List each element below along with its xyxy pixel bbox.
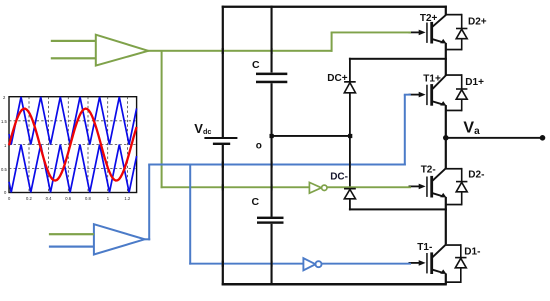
wire (D1+ top connector): [446, 74, 462, 76]
diode D2+: [456, 14, 467, 51]
svg-text:0.4: 0.4: [46, 196, 52, 201]
wire (DC- branch vertical below diode to lower rail): [349, 199, 351, 211]
wire (bottom rail): [222, 283, 447, 286]
diode D1-: [455, 244, 466, 283]
wire (green gate net: U1 output horizontal): [147, 50, 333, 52]
svg-text:T1+: T1+: [423, 73, 441, 84]
op-amp U2 (lower PWM comparator, blue): [94, 224, 145, 254]
label Vdc: [194, 121, 211, 136]
diode D2-: [456, 168, 467, 206]
svg-text:D1-: D1-: [464, 247, 480, 258]
svg-text:D2-: D2-: [468, 170, 484, 181]
wire (U1 lower input, green): [51, 57, 96, 59]
node o junction dots: [270, 134, 353, 138]
wire (D1+ bottom connector): [446, 110, 462, 112]
transistor Q3 T2- (IGBT): [409, 168, 447, 198]
capacitor C1 (upper): [256, 73, 287, 84]
transistor Q2 T1+ (IGBT): [409, 75, 447, 106]
svg-text:C: C: [252, 196, 260, 208]
wire (blue riser vertical): [148, 165, 150, 241]
op-amp U1 (upper PWM comparator, green): [96, 35, 148, 66]
wire (U2 lower input, blue): [49, 246, 94, 248]
wire (T2- emitter bus to lower midpoint): [445, 197, 447, 244]
wire (T2+ collector/emitter bus to midpoint): [445, 43, 447, 76]
capacitor C2 (lower): [257, 217, 284, 224]
wire (left bus over blue top-horizontal crossing): [222, 162, 224, 168]
wire (DC+ branch vertical below diode to node o): [349, 93, 351, 137]
wire (D2+ bottom connector): [446, 49, 462, 51]
transistor Q1 T2+ (IGBT): [409, 15, 447, 44]
svg-text:D2+: D2+: [468, 16, 487, 27]
wire (blue from NOT2 to T1- gate): [322, 263, 412, 265]
wire (cap bus over green output crossing): [271, 48, 273, 54]
wire (D1- top connector): [446, 244, 461, 246]
battery Vdc: [204, 137, 237, 145]
svg-text:1.2: 1.2: [124, 196, 130, 201]
wire (blue branch vertical to NOT2): [189, 165, 191, 265]
wire (green run to T2+ gate): [331, 32, 411, 34]
wire (D1- bottom connector): [446, 281, 461, 283]
wire (cap bus over blue top-horizontal crossing): [271, 162, 273, 168]
wire (green branch vertical to inverter): [161, 51, 163, 188]
wire (left bus over green output crossing): [222, 48, 224, 54]
wire (cap bus over blue bottom-horizontal crossing): [271, 261, 273, 267]
diode DC+: [344, 81, 356, 93]
wire (green from NOT1 to T2- gate): [327, 186, 411, 188]
wire (blue top horizontal): [148, 164, 406, 166]
svg-text:1.5: 1.5: [1, 119, 7, 124]
wire (blue vertical up to T1+ gate): [404, 95, 406, 166]
svg-text:0.5: 0.5: [1, 167, 7, 172]
wire (D2+ top connector): [446, 14, 462, 16]
chart (PWM carriers and reference plot): [1, 95, 137, 201]
svg-text:T2+: T2+: [420, 13, 438, 24]
wire (blue horizontal to NOT gate): [189, 263, 303, 265]
wire (lower midpoint rail T2-/T1-): [349, 208, 447, 210]
svg-text:0.2: 0.2: [26, 196, 32, 201]
svg-text:0.6: 0.6: [65, 196, 71, 201]
diode DC-: [344, 188, 356, 199]
svg-text:DC+: DC+: [327, 73, 347, 84]
wire (capacitor bus vertical, middle segment): [271, 83, 273, 217]
wire (T1+ emitter bus to Va node): [445, 105, 447, 168]
wire (top rail): [222, 6, 447, 8]
wire (DC bus left vertical, upper): [222, 6, 224, 137]
wire (DC bus left vertical, lower): [222, 145, 224, 286]
wire (upper midpoint rail T2+/T1+): [349, 58, 447, 60]
inverter NOT2 (blue): [303, 258, 321, 270]
wire (capacitor bus vertical, top segment): [271, 6, 273, 73]
node Va junction dot: [443, 135, 449, 141]
svg-text:D1+: D1+: [465, 77, 484, 88]
svg-text:o: o: [256, 141, 262, 152]
svg-text:0.8: 0.8: [85, 196, 91, 201]
wire (DC- vertical over blue top-horizontal crossing): [349, 162, 351, 168]
wire (blue net: U2 output to riser): [145, 238, 151, 240]
svg-text:C: C: [252, 59, 260, 71]
svg-text:DC-: DC-: [330, 171, 348, 182]
diode DC- cathode bar over green line: [344, 188, 356, 190]
svg-text:T2-: T2-: [421, 165, 436, 176]
wire (Va output line): [446, 137, 543, 139]
wire (D2- bottom connector): [446, 204, 462, 206]
wire (cap bus over green inverter-line crossing): [271, 184, 273, 190]
wire (DC- branch vertical from node o to diode): [349, 136, 351, 188]
wire (green step-up vertical): [331, 32, 333, 51]
svg-text:T1-: T1-: [417, 242, 432, 253]
transistor Q4 T1- (IGBT): [409, 244, 447, 274]
inverter NOT1 (green): [309, 182, 327, 193]
wire (blue run to T1+ gate): [404, 94, 411, 96]
node (Va line end dot): [540, 135, 546, 141]
wire (U1 upper input, green): [51, 40, 96, 42]
diode D1+: [456, 74, 467, 111]
wire (T1- emitter bus to bottom rail): [445, 273, 447, 284]
wire (right bus: top rail to T2+ collector): [445, 6, 447, 16]
wire (left bus over green inverter-line crossing): [222, 184, 224, 190]
wire (D2- top connector): [446, 168, 462, 170]
wire (neutral o horizontal): [271, 135, 351, 137]
wire (left bus over blue bottom-horizontal crossing): [222, 261, 224, 267]
wire (U2 upper input, green): [49, 233, 94, 235]
wire (DC+ branch vertical above diode): [349, 58, 351, 82]
wire (capacitor bus vertical, bottom segment): [271, 224, 273, 286]
wire (green horizontal to NOT gate): [161, 186, 310, 188]
